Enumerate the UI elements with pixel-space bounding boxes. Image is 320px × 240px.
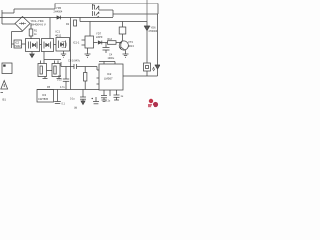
wire: [30, 24, 32, 30]
wire: [114, 62, 116, 65]
wire AC to left vertex: [2, 23, 15, 25]
wire: [30, 36, 32, 39]
wire: [22, 43, 26, 45]
wire top bus: [55, 3, 158, 5]
wire: [12, 43, 15, 45]
wire: [116, 42, 121, 44]
svg-text:0.1u: 0.1u: [70, 98, 75, 101]
svg-text:IC2: IC2: [107, 72, 112, 76]
capacitor C11 to ground: [80, 90, 86, 105]
bridge rectifier YD1~YD4: [15, 17, 30, 32]
wire lower rail: [80, 21, 147, 23]
wire: [103, 62, 105, 65]
ground under VT3: [123, 54, 129, 57]
wire: [54, 4, 56, 10]
wire right edge drop: [157, 4, 159, 15]
svg-text:C8 0.047u: C8 0.047u: [68, 59, 81, 63]
svg-text:R13: R13: [108, 38, 113, 41]
wire B2-B3: [54, 44, 57, 46]
wire B2 drop: [43, 52, 45, 61]
svg-text:2H4004 6 V: 2H4004 6 V: [31, 23, 46, 27]
red logo: [148, 99, 158, 108]
wire: [122, 34, 124, 40]
IC2 bottom pin 3 cap: [114, 90, 120, 100]
resistor R8: [84, 73, 87, 82]
svg-text:YD7: YD7: [96, 32, 102, 36]
svg-text:VT3: VT3: [128, 40, 133, 44]
wire between pair: [47, 70, 53, 72]
resistor R13: [108, 41, 117, 45]
wire step to lower rail: [79, 18, 81, 22]
capacitor C9: [63, 67, 69, 90]
wire long middle vertical: [70, 18, 72, 90]
diode YD5: [57, 16, 61, 20]
svg-text:IC3: IC3: [42, 93, 47, 97]
gate IC1-2: [82, 36, 98, 48]
pair box T2: [52, 61, 60, 77]
wire branch to gates: [49, 18, 51, 39]
tick: [1, 92, 4, 94]
zener YD6: [144, 22, 150, 64]
diode YD7: [98, 41, 107, 45]
svg-text:1000u: 1000u: [108, 57, 115, 60]
svg-text:CW7805: CW7805: [38, 97, 49, 101]
svg-text:HA02: HA02: [15, 45, 22, 48]
wire: [113, 13, 158, 15]
ground under gate: [85, 48, 91, 57]
capacitor C10 below bus: [54, 90, 61, 104]
box IC2A: [14, 40, 22, 48]
wire left drop: [11, 32, 13, 49]
svg-text:4011: 4011: [55, 33, 62, 37]
optocoupler B3: [56, 38, 70, 52]
svg-text:0.1: 0.1: [62, 103, 66, 106]
horn triangle: [1, 81, 8, 90]
svg-text:IC1-1: IC1-1: [73, 41, 80, 45]
relay contact K lower: [92, 11, 99, 18]
box bottom left: [2, 63, 12, 74]
svg-text:4.7u: 4.7u: [60, 86, 65, 89]
IC3 CW7805 box: [37, 90, 54, 103]
svg-text:2AP9: 2AP9: [96, 35, 103, 39]
ground under B1: [30, 52, 34, 58]
resistor R14 collector: [119, 27, 126, 34]
svg-text:9013: 9013: [128, 44, 134, 48]
wire gate feed: [89, 22, 91, 37]
wire: [13, 9, 15, 13]
capacitor C8: [61, 62, 99, 70]
ground tick T2: [57, 77, 62, 79]
svg-text:IC2: IC2: [15, 41, 20, 45]
wire top feed: [14, 8, 55, 10]
wire: [146, 0, 148, 22]
optocoupler B2: [42, 39, 54, 52]
svg-text:B1: B1: [3, 98, 7, 102]
svg-text:1u: 1u: [121, 95, 124, 98]
capacitor C4: [103, 43, 110, 54]
IC2 bottom pin 1: [101, 90, 107, 102]
svg-text:2H4004: 2H4004: [149, 30, 158, 33]
wire over pair: [44, 59, 61, 61]
resistor R1: [29, 29, 33, 36]
svg-text:1k: 1k: [34, 33, 37, 36]
wire: [112, 10, 114, 17]
wire AC input left vertical: [1, 10, 3, 24]
wire: [84, 67, 86, 73]
svg-text:(b): (b): [74, 106, 77, 110]
svg-text:0.1u: 0.1u: [106, 100, 111, 103]
wire: [2, 12, 14, 14]
wire rail tail: [97, 17, 113, 19]
wire AC rail: [0, 17, 97, 19]
svg-text:R2: R2: [66, 23, 70, 26]
LED VL: [153, 14, 161, 76]
buzzer B box: [144, 63, 151, 76]
ground under B3: [61, 51, 66, 57]
wire top pin: [99, 61, 115, 63]
wire bottom right bus: [123, 75, 158, 77]
electrolytic cap: [92, 97, 100, 104]
resistor R2: [74, 20, 77, 26]
svg-text:2H4004: 2H4004: [54, 11, 63, 14]
svg-text:LM567: LM567: [104, 77, 113, 81]
optocoupler B1: [26, 39, 40, 52]
ground tick T1: [43, 77, 48, 79]
bottom bus: [37, 89, 99, 91]
svg-text:R5: R5: [47, 86, 51, 89]
pair box T1: [38, 61, 47, 77]
wire B1-B2: [40, 44, 42, 46]
svg-text:YD5: YD5: [56, 6, 62, 10]
relay contact K upper: [92, 4, 98, 10]
wire: [99, 9, 113, 11]
wire: [84, 81, 86, 90]
wire bottom vertex left: [12, 31, 23, 33]
transistor VT3: [119, 40, 128, 54]
svg-text:YD6: YD6: [151, 26, 157, 30]
wire: [122, 22, 124, 28]
IC2 bottom pin 2: [109, 90, 111, 96]
IC2 LM567 box: [97, 64, 124, 90]
